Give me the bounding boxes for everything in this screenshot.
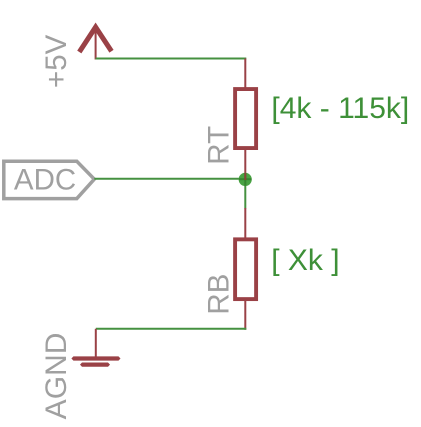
ground AGND symbol	[71, 329, 120, 367]
wire from RB to ground	[96, 328, 247, 330]
resistor RT pin 1 (top stub)	[244, 59, 246, 91]
svg-text:[4k - 115k]: [4k - 115k]	[271, 92, 409, 125]
svg-text:RT: RT	[203, 126, 236, 165]
resistor RT body	[235, 89, 256, 148]
wire from ADC flag to junction	[94, 178, 245, 180]
wire junction to RB (vertical green)	[244, 179, 246, 209]
power +5V arrow symbol	[79, 27, 111, 59]
resistor RB pin 1 (top stub)	[244, 208, 246, 240]
wire from +5V to top of RT	[96, 58, 247, 60]
resistor RT pin 2 (bottom stub)	[244, 149, 246, 175]
svg-text:ADC: ADC	[14, 164, 76, 197]
resistor RB body	[235, 239, 256, 299]
junction node dot	[239, 173, 252, 186]
net label ADC flag	[4, 161, 95, 198]
svg-text:AGND: AGND	[40, 333, 73, 420]
svg-text:[ Xk ]: [ Xk ]	[271, 244, 339, 277]
resistor RB pin 2 (bottom stub)	[244, 300, 246, 330]
svg-text:RB: RB	[203, 274, 236, 315]
svg-text:+5V: +5V	[40, 34, 73, 88]
